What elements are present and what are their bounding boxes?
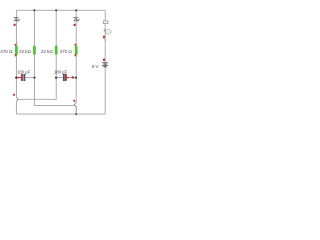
resistor R2 22 kohm <box>33 46 36 55</box>
capacitor C2 180 uF <box>63 74 67 81</box>
svg-text:22 kΩ: 22 kΩ <box>19 49 31 54</box>
wire capacitor C2 link <box>56 77 76 79</box>
current arrow at Q1 emitter <box>13 94 15 96</box>
wire column 1 emitter to ground <box>15 102 17 115</box>
svg-text:22 kΩ: 22 kΩ <box>41 49 53 54</box>
svg-text:470 Ω: 470 Ω <box>0 49 13 54</box>
resistor R4 470 ohm <box>75 46 78 55</box>
value label R4 <box>60 49 73 54</box>
value label battery <box>92 64 100 69</box>
current arrow at D1 <box>14 24 16 26</box>
transistor Q1 <box>16 97 18 101</box>
node C2 left junction <box>55 77 57 79</box>
wire column 4 <box>75 10 77 102</box>
current arrow above R4 <box>74 44 77 46</box>
node top bus junction col4 <box>75 9 77 11</box>
svg-text:100 µF: 100 µF <box>17 70 31 75</box>
current arrow at switch <box>103 36 105 39</box>
svg-text:470 Ω: 470 Ω <box>60 49 73 54</box>
wire column 3 with turn into Q1 base rail <box>18 10 56 99</box>
current arrow into C1 <box>16 77 21 79</box>
current arrow on C2 wire <box>72 76 74 78</box>
node C2 right junction <box>75 77 77 79</box>
capacitor C1 100 uF <box>21 74 25 81</box>
current arrow out of C2 <box>67 77 69 79</box>
resistor R1 470 ohm <box>15 46 18 55</box>
node top bus junction col3 <box>55 9 57 11</box>
svg-text:180 µF: 180 µF <box>54 70 68 75</box>
current arrow at D2 <box>74 24 76 26</box>
wire right battery branch <box>104 10 106 114</box>
svg-text:9 V: 9 V <box>92 64 100 69</box>
LED D1 <box>14 17 20 21</box>
transistor Q2 <box>74 103 76 115</box>
LED D2 <box>73 17 79 21</box>
value label C2 <box>54 70 68 75</box>
wire left branch column 1 <box>15 10 17 97</box>
push switch S1 <box>103 21 111 34</box>
value label R1 <box>0 49 13 54</box>
current arrow at Q2 collector <box>73 100 75 102</box>
node C1 right junction <box>33 77 35 79</box>
current arrow above R1 <box>14 44 17 46</box>
node C1 left junction <box>15 76 18 79</box>
wire bottom ground bus <box>16 113 105 115</box>
background <box>0 0 117 120</box>
current arrow below R1 <box>14 55 17 57</box>
current arrow below R4 <box>74 55 77 57</box>
wire column 2 base branch <box>34 10 74 105</box>
wire capacitor C1 link <box>25 77 34 79</box>
value label R3 <box>41 49 53 54</box>
battery B1 9V <box>102 63 108 67</box>
wire top supply bus <box>16 9 105 11</box>
switch arrowhead blob <box>104 40 107 42</box>
node top bus junction col2 <box>33 9 35 11</box>
value label R2 <box>19 49 31 54</box>
node ground bus junction Q2 emitter <box>75 113 77 115</box>
current arrow at battery <box>103 59 105 61</box>
resistor R3 22 kohm <box>55 46 58 55</box>
value label C1 <box>17 70 31 75</box>
